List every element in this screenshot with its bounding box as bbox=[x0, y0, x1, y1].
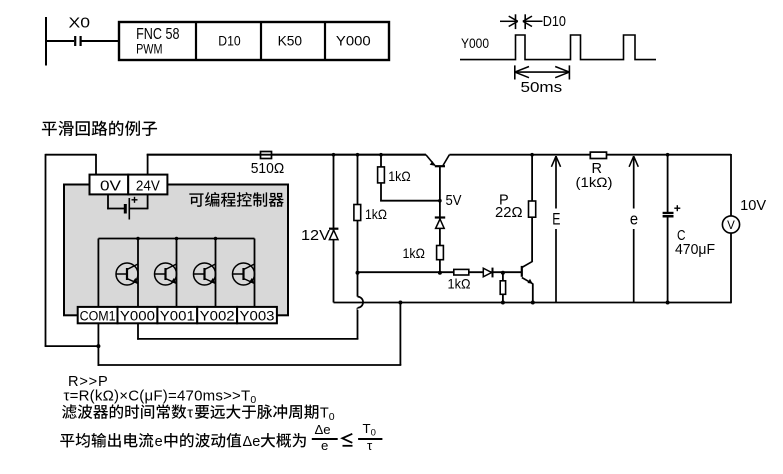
svg-text:E: E bbox=[552, 211, 560, 229]
svg-text:PWM: PWM bbox=[136, 40, 162, 56]
svg-text:1kΩ: 1kΩ bbox=[403, 245, 426, 261]
svg-text:12V: 12V bbox=[301, 228, 330, 244]
svg-text:Δe: Δe bbox=[315, 422, 331, 437]
svg-text:Y002: Y002 bbox=[200, 309, 235, 324]
svg-text:Y003: Y003 bbox=[240, 309, 275, 324]
svg-text:e: e bbox=[155, 434, 163, 450]
svg-text:510Ω: 510Ω bbox=[251, 161, 285, 177]
svg-text:24V: 24V bbox=[136, 178, 160, 194]
svg-text:1kΩ: 1kΩ bbox=[448, 275, 471, 291]
svg-text:Y001: Y001 bbox=[160, 309, 195, 324]
svg-text:X0: X0 bbox=[69, 15, 91, 32]
svg-text:22Ω: 22Ω bbox=[495, 205, 523, 221]
svg-text:0V: 0V bbox=[100, 178, 121, 194]
svg-text:1kΩ: 1kΩ bbox=[388, 168, 411, 184]
svg-text:Y000: Y000 bbox=[336, 33, 371, 49]
svg-text:e: e bbox=[321, 438, 328, 453]
svg-text:5V: 5V bbox=[446, 193, 462, 209]
svg-text:Δe: Δe bbox=[243, 434, 261, 450]
svg-text:D10: D10 bbox=[218, 33, 241, 49]
svg-text:τ: τ bbox=[367, 438, 373, 453]
svg-text:τ: τ bbox=[187, 406, 193, 422]
svg-text:τ=R(kΩ)×C(μF)=470ms>>T0: τ=R(kΩ)×C(μF)=470ms>>T0 bbox=[64, 387, 257, 406]
svg-text:10V: 10V bbox=[740, 198, 766, 214]
svg-text:V: V bbox=[727, 220, 735, 232]
svg-text:D10: D10 bbox=[543, 13, 566, 30]
svg-text:T0: T0 bbox=[320, 406, 335, 424]
svg-text:470μF: 470μF bbox=[675, 242, 715, 258]
svg-text:Y000: Y000 bbox=[461, 35, 489, 51]
svg-text:(1kΩ): (1kΩ) bbox=[576, 174, 613, 190]
svg-text:e: e bbox=[630, 211, 638, 229]
svg-text:COM1: COM1 bbox=[80, 309, 116, 324]
svg-text:1kΩ: 1kΩ bbox=[365, 206, 387, 222]
svg-text:50ms: 50ms bbox=[521, 80, 563, 96]
svg-text:Y000: Y000 bbox=[120, 309, 155, 324]
svg-text:T0: T0 bbox=[363, 421, 376, 439]
svg-text:K50: K50 bbox=[278, 33, 303, 49]
